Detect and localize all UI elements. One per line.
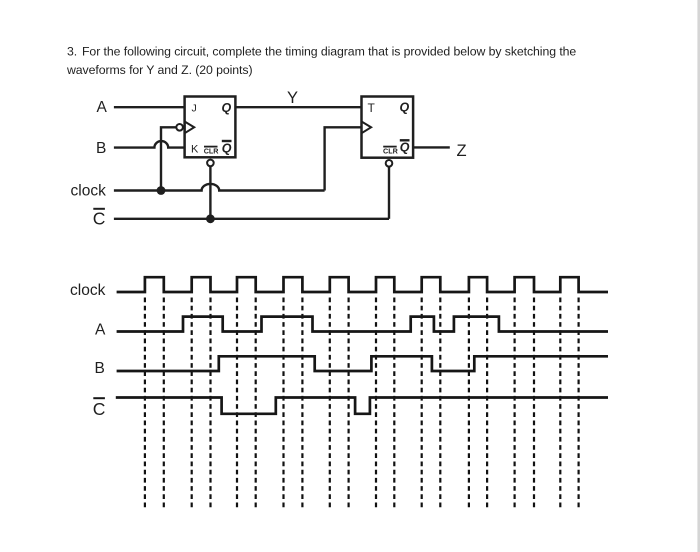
waveform label C-bar <box>93 399 106 419</box>
input label B <box>96 140 106 157</box>
timing grid dashed lines at clock edges <box>145 298 579 511</box>
svg-text:K: K <box>191 143 199 155</box>
problem statement text <box>66 45 576 78</box>
JK flip-flop U1 <box>176 97 235 167</box>
input label C-bar <box>93 208 106 228</box>
svg-text:C: C <box>93 208 106 228</box>
input label clock <box>71 182 107 199</box>
waveform label clock <box>70 282 106 299</box>
wire U1 CLR bubble down to C-bar <box>209 166 211 219</box>
waveform label A <box>95 321 106 338</box>
wire Y : U1 Q to U2 T <box>235 106 361 108</box>
waveform clock <box>117 277 608 292</box>
svg-text:A: A <box>97 99 108 116</box>
svg-text:B: B <box>96 140 106 157</box>
waveform label B <box>95 360 105 377</box>
wire C-bar horizontal <box>114 218 389 220</box>
wire clock horizontal (with hop over CLR line) <box>114 184 325 191</box>
node label Z <box>457 142 467 160</box>
wire A to J input <box>114 106 185 108</box>
svg-text:waveforms for Y and Z. (20 po: waveforms for Y and Z. (20 points) <box>66 63 252 77</box>
T flip-flop U2 <box>362 97 414 167</box>
input label A <box>97 99 108 116</box>
svg-text:Y: Y <box>287 89 298 107</box>
svg-text:Q: Q <box>222 101 232 115</box>
svg-text:B: B <box>95 360 105 377</box>
svg-text:C: C <box>93 399 106 419</box>
svg-text:For the following circuit, com: For the following circuit, complete the … <box>82 45 576 59</box>
node label Y <box>287 89 298 107</box>
overline of waveform label C-bar <box>93 397 105 399</box>
waveform A <box>117 317 608 332</box>
waveform C-bar <box>116 398 608 414</box>
wire U2 CLR bubble down to C-bar <box>388 166 390 219</box>
node clock junction <box>157 186 166 195</box>
svg-text:J: J <box>192 103 197 115</box>
page edge line <box>697 0 700 552</box>
wire B to K input (with hop over clock line) <box>114 141 185 148</box>
svg-text:clock: clock <box>71 182 107 199</box>
svg-text:A: A <box>95 321 106 338</box>
wire Z : U2 Qbar output <box>413 146 450 148</box>
svg-text:Q: Q <box>400 141 410 155</box>
waveform B <box>117 356 608 371</box>
svg-text:3.: 3. <box>67 45 77 59</box>
node C-bar junction at U1 CLR <box>206 214 215 223</box>
svg-text:CLR: CLR <box>383 147 399 156</box>
svg-text:CLR: CLR <box>204 147 220 156</box>
wire clock up to U2 clock input <box>325 127 362 190</box>
overline of C-bar label <box>93 208 105 210</box>
svg-text:Z: Z <box>457 142 467 160</box>
wire clock up to U1 clock bubble <box>161 127 176 190</box>
svg-text:Q: Q <box>222 141 232 155</box>
svg-text:T: T <box>368 101 376 115</box>
svg-text:Q: Q <box>400 101 410 115</box>
svg-text:clock: clock <box>70 282 106 299</box>
